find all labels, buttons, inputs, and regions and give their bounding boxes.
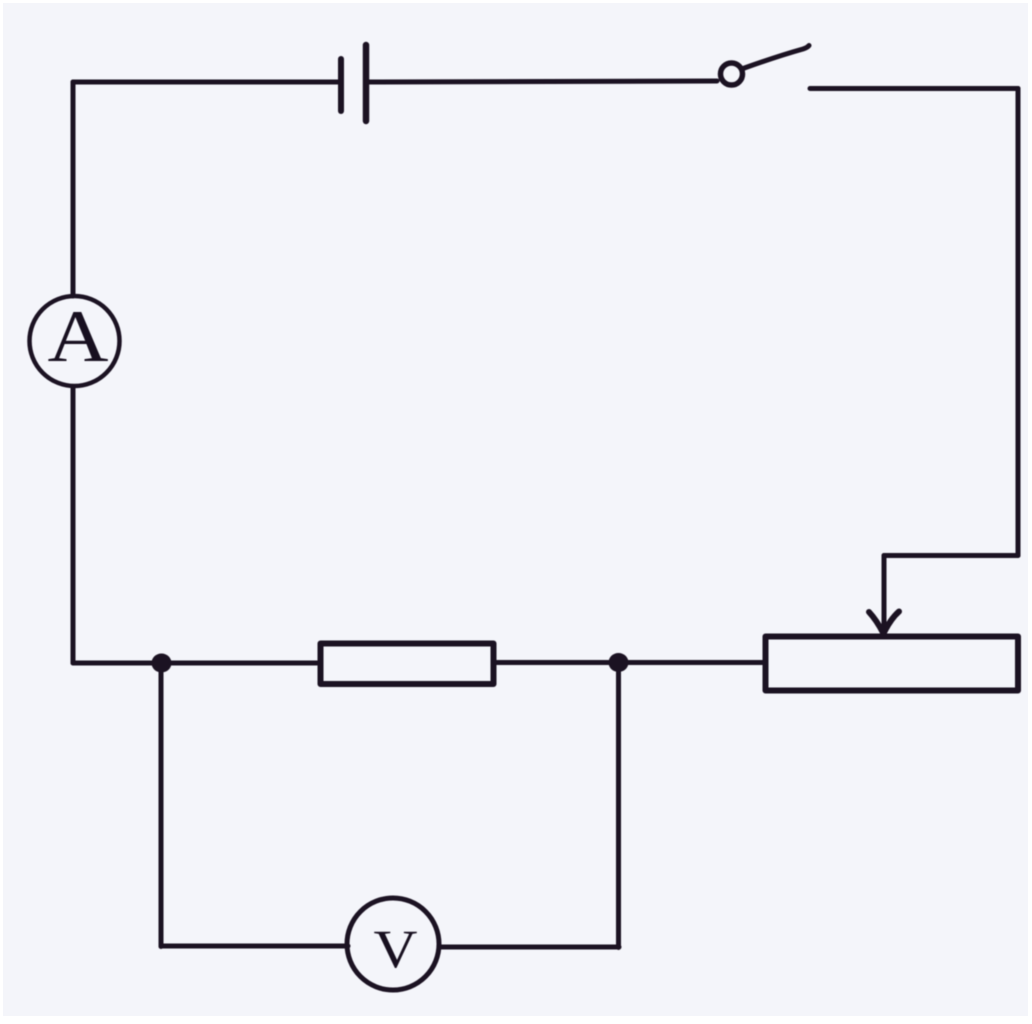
wire rheostat to node B xyxy=(627,660,765,665)
wire left vertical upper xyxy=(71,82,76,296)
wiper arrowhead xyxy=(869,612,899,634)
rheostat R2 body xyxy=(766,637,1019,691)
wire node A to left corner xyxy=(73,661,152,666)
wire bottom left horizontal xyxy=(161,944,348,949)
wire switch to top-right corner xyxy=(810,86,1018,91)
wire wiper horizontal xyxy=(884,553,1018,558)
resistor R1 body xyxy=(321,644,494,685)
svg-text:V: V xyxy=(374,919,418,979)
wire node A down xyxy=(159,663,164,947)
node A junction dot xyxy=(152,654,172,673)
wire node B to resistor xyxy=(496,660,628,665)
wiper arrow shaft xyxy=(882,556,887,631)
switch S pivot circle xyxy=(721,63,743,85)
svg-text:A: A xyxy=(48,296,109,378)
wire left vertical lower xyxy=(71,387,76,663)
switch S lever arm xyxy=(743,46,809,69)
wire battery to switch xyxy=(369,81,717,82)
battery cell long plate (positive) xyxy=(363,45,370,121)
ammeter A1 circle xyxy=(30,296,120,386)
wire top-left horizontal xyxy=(73,80,338,85)
battery cell short plate (negative) xyxy=(338,59,344,111)
wire right vertical xyxy=(1016,89,1021,556)
wire bottom right horizontal xyxy=(439,945,619,950)
voltmeter V1 circle xyxy=(347,898,439,990)
wire resistor to node A xyxy=(171,661,317,666)
wire node B down xyxy=(616,662,621,948)
node B junction dot xyxy=(609,653,629,672)
